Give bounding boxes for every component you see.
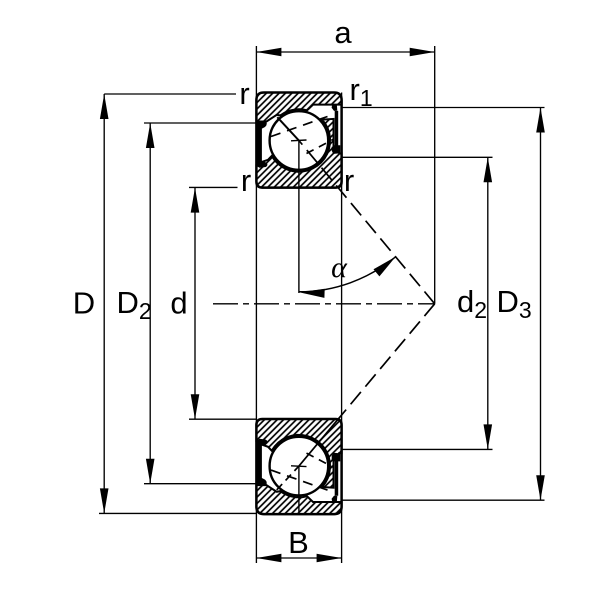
- centre tick top ball: [291, 139, 307, 142]
- dimension D line: [103, 94, 105, 513]
- dashed guide B bottom ball: [307, 453, 334, 467]
- extension line pressure centre: [434, 46, 436, 304]
- dimension D2 line: [149, 123, 151, 484]
- seal right bottom section: [332, 453, 340, 502]
- dashed guide A bottom ball: [271, 470, 328, 490]
- contact line solid stub top: [277, 117, 299, 140]
- contact line dashed stub bottom: [277, 466, 299, 490]
- contact angle alpha arc: [299, 257, 396, 292]
- bearing outline top section: [256, 93, 341, 188]
- seal left bottom section: [257, 439, 267, 485]
- svg-text:r: r: [344, 163, 354, 198]
- bearing outline bottom section: [256, 419, 341, 514]
- ball top section: [270, 111, 329, 170]
- contact line dashed bottom outside: [338, 304, 435, 419]
- outer ring bottom section: [256, 485, 341, 514]
- svg-text:r: r: [241, 163, 251, 198]
- dashed guide B top ball: [307, 140, 334, 154]
- svg-text:r: r: [239, 76, 249, 111]
- dimension d2 line: [487, 157, 489, 449]
- dimension a line: [256, 51, 434, 53]
- seal left top section: [257, 122, 267, 168]
- radial line bottom ball: [298, 466, 300, 512]
- extension line left face: [255, 46, 257, 563]
- ball bottom section: [270, 437, 329, 496]
- contact line dashed top: [299, 141, 435, 304]
- outer ring top section: [256, 93, 341, 122]
- centre line axis: [213, 303, 435, 305]
- extension line right face: [341, 93, 343, 564]
- dashed guide A top ball: [271, 117, 328, 137]
- svg-text:d: d: [170, 286, 187, 321]
- centre tick bottom ball: [291, 465, 307, 468]
- contact line solid bottom: [299, 419, 338, 466]
- dimension D3 line: [540, 108, 542, 501]
- svg-text:D: D: [73, 286, 95, 321]
- inner ring top section: [256, 119, 341, 188]
- radial line top ball: [298, 141, 300, 294]
- seal right top section: [332, 105, 340, 154]
- svg-text:B: B: [288, 525, 309, 560]
- svg-text:a: a: [334, 15, 352, 50]
- dimension B line: [256, 557, 341, 559]
- dimension d line: [194, 188, 196, 420]
- inner ring bottom section: [256, 419, 341, 488]
- svg-text:α: α: [331, 251, 348, 284]
